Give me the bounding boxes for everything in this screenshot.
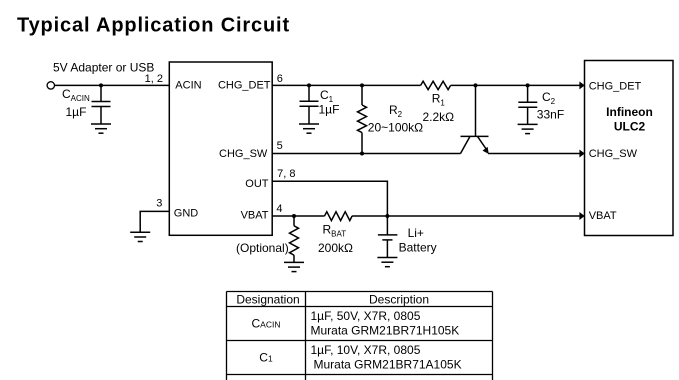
svg-text:33nF: 33nF xyxy=(537,107,564,121)
svg-text:RBAT: RBAT xyxy=(323,223,347,239)
svg-text:Description: Description xyxy=(369,293,429,307)
svg-text:Murata GRM21BR71H105K: Murata GRM21BR71H105K xyxy=(311,323,460,337)
svg-text:Infineon: Infineon xyxy=(606,105,653,119)
svg-text:C1: C1 xyxy=(259,351,273,365)
svg-text:VBAT: VBAT xyxy=(241,210,269,222)
svg-text:Battery: Battery xyxy=(399,241,437,255)
svg-text:R2: R2 xyxy=(389,103,403,119)
svg-text:ULC2: ULC2 xyxy=(614,119,646,133)
svg-text:CHG_SW: CHG_SW xyxy=(589,148,638,160)
svg-text:200kΩ: 200kΩ xyxy=(318,241,353,255)
svg-text:Typical Application Circuit: Typical Application Circuit xyxy=(17,15,290,37)
svg-text:1µF, 10V, X7R, 0805: 1µF, 10V, X7R, 0805 xyxy=(311,343,421,357)
svg-text:7, 8: 7, 8 xyxy=(277,168,295,180)
svg-text:CHG_DET: CHG_DET xyxy=(589,80,642,92)
svg-text:5V Adapter or USB: 5V Adapter or USB xyxy=(53,61,154,75)
svg-text:GND: GND xyxy=(174,208,199,220)
svg-text:CACIN: CACIN xyxy=(62,87,90,103)
svg-text:CHG_DET: CHG_DET xyxy=(218,79,271,91)
svg-text:CACIN: CACIN xyxy=(252,317,281,331)
svg-text:1µF: 1µF xyxy=(319,103,340,117)
svg-text:ACIN: ACIN xyxy=(175,79,201,91)
svg-text:Li+: Li+ xyxy=(408,226,424,240)
svg-text:CHG_SW: CHG_SW xyxy=(219,148,268,160)
svg-text:VBAT: VBAT xyxy=(589,210,617,222)
svg-text:OUT: OUT xyxy=(245,178,269,190)
svg-text:Murata GRM21BR71A105K: Murata GRM21BR71A105K xyxy=(314,358,462,372)
svg-text:3: 3 xyxy=(156,198,162,210)
svg-text:2.2kΩ: 2.2kΩ xyxy=(423,110,455,124)
svg-text:1µF, 50V, X7R, 0805: 1µF, 50V, X7R, 0805 xyxy=(311,309,421,323)
svg-text:1µF: 1µF xyxy=(66,105,87,119)
svg-text:5: 5 xyxy=(277,140,283,152)
svg-text:C2: C2 xyxy=(542,90,556,106)
svg-text:(Optional): (Optional) xyxy=(236,241,289,255)
svg-text:20~100kΩ: 20~100kΩ xyxy=(368,120,423,134)
svg-text:6: 6 xyxy=(277,73,283,85)
svg-text:C1: C1 xyxy=(320,88,334,104)
svg-text:Designation: Designation xyxy=(236,293,299,307)
svg-text:4: 4 xyxy=(276,203,282,215)
svg-text:R1: R1 xyxy=(432,92,446,108)
